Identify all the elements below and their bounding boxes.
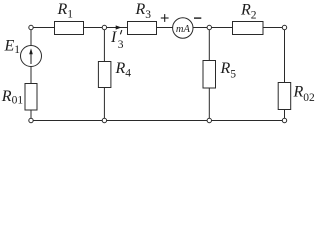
wire top: node2 to R3 (with current arrow)	[104, 27, 127, 29]
wire R02 branch: R02 to bottom node8	[284, 110, 286, 121]
wire top: R2 to node4	[263, 27, 285, 29]
wire R4 branch: R4 to bottom node6	[103, 88, 105, 121]
source E1 arrow	[29, 48, 33, 64]
wire R02 branch: node4 down to R02	[284, 28, 286, 83]
wire top: node1 to R1	[31, 27, 55, 29]
node 1 (top left)	[29, 25, 33, 29]
resistor R3	[128, 22, 157, 35]
node 7 (bottom, below R5)	[207, 118, 211, 122]
resistor R5	[203, 61, 216, 89]
wire top: ammeter to node3	[193, 27, 209, 29]
wire bottom rail	[31, 120, 285, 122]
node 2 (top, after R1)	[102, 25, 106, 29]
svg-text:mA: mA	[176, 24, 191, 35]
polarity minus	[194, 17, 201, 18]
wire left branch: E1 to R01	[30, 67, 32, 84]
node 3 (top, after ammeter)	[207, 25, 211, 29]
resistor R02	[278, 83, 291, 110]
node 5 (bottom left)	[29, 118, 33, 122]
wire top: R3 to ammeter	[157, 27, 173, 29]
wire R4 branch: node2 down to R4	[103, 28, 105, 62]
wire R5 branch: R5 to bottom node7	[208, 88, 210, 121]
node 8 (bottom right)	[282, 118, 286, 122]
wire R5 branch: node3 down to R5	[208, 28, 210, 61]
node 6 (bottom, below R4)	[102, 118, 106, 122]
wire left branch: node1 down to E1	[30, 28, 32, 46]
resistor R01	[25, 84, 37, 111]
ammeter mA circle	[173, 18, 193, 38]
source E1 circle	[21, 46, 42, 67]
node 4 (top right)	[282, 25, 286, 29]
resistor R4	[98, 62, 111, 88]
resistor R1	[55, 22, 84, 35]
wire top: node3 to R2	[209, 27, 232, 29]
wire left branch: R01 to bottom node5	[30, 110, 32, 121]
resistor R2	[233, 22, 264, 35]
prime mark of I'3	[120, 30, 121, 34]
wire top: R1 to node2	[84, 27, 105, 29]
current arrow I'3	[116, 25, 122, 29]
polarity plus	[161, 14, 169, 22]
